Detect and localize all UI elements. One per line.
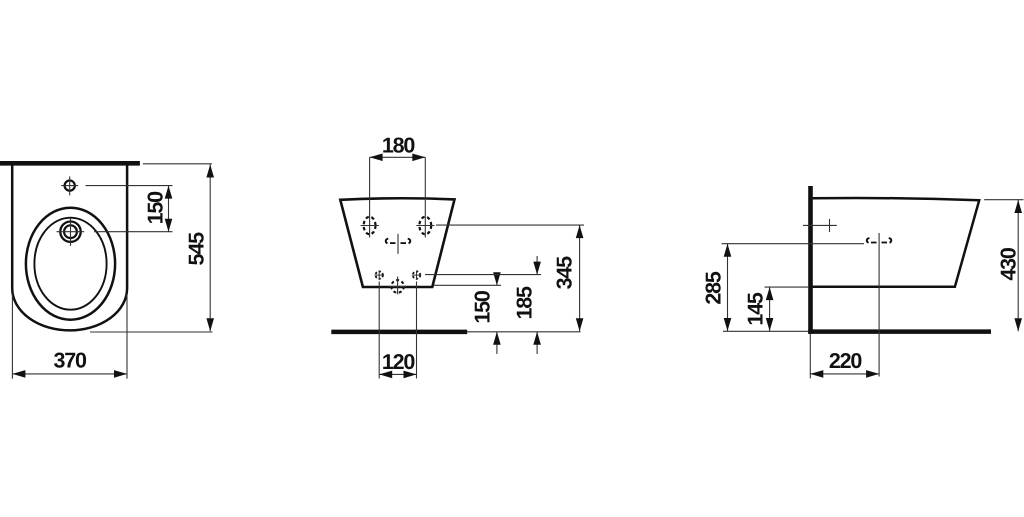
dim 145: extension line	[765, 286, 810, 288]
dim 220: label	[829, 349, 863, 373]
dim 370: dimension line with arrows	[12, 370, 127, 378]
dim 285: dimension line with arrows	[724, 244, 732, 331]
dim 185: dimension line with outside arrows	[533, 256, 541, 354]
dim 150 plan: dimension line with arrows	[165, 186, 173, 232]
dim 150 front: dimension line with outside arrows	[493, 272, 501, 354]
floor line side view	[808, 329, 991, 334]
dim 285: extension line	[722, 243, 865, 245]
svg-text:145: 145	[744, 292, 768, 326]
dim 150 front: extension line from trapezoid bottom	[434, 284, 501, 286]
svg-text:120: 120	[382, 350, 416, 374]
floor thin extension to left dims	[723, 330, 808, 332]
dim 545: top extension line	[143, 163, 212, 165]
dim 345: extension line from mounting holes	[436, 224, 584, 226]
water inlet symbol side (dashed crosshair)	[867, 238, 891, 243]
svg-text:180: 180	[382, 134, 416, 158]
dim 180: dimension line with arrows	[370, 154, 426, 162]
dim 185: extension line from bolt holes	[425, 274, 541, 276]
dim 345: label	[553, 256, 577, 290]
bolt hole left front (small dashed circle)	[375, 270, 384, 279]
faucet crosshair side	[803, 219, 837, 232]
dim 430: dimension line with arrows	[1014, 200, 1022, 331]
mounting hole right (dashed)	[416, 217, 434, 235]
dim 145: label	[744, 292, 768, 326]
svg-text:285: 285	[702, 271, 726, 305]
dim 120: extension lines	[379, 282, 416, 379]
dim 185: label	[513, 286, 537, 320]
svg-text:370: 370	[54, 348, 88, 372]
dim 220: left extension line below floor	[809, 334, 811, 378]
svg-text:545: 545	[185, 232, 209, 266]
dim 430: label	[997, 247, 1021, 281]
dim 180: label	[382, 134, 416, 158]
dim 120: dimension line with arrows	[379, 371, 416, 379]
dim 370: extension lines	[12, 294, 127, 379]
svg-text:150: 150	[471, 290, 495, 324]
svg-text:185: 185	[513, 286, 537, 320]
floor line front view	[331, 330, 467, 335]
water inlet symbol front (dashed crosshair)	[386, 234, 411, 254]
svg-text:220: 220	[829, 349, 863, 373]
dim 345: dimension line with arrows	[576, 225, 584, 331]
dim 430: extension line top right	[984, 199, 1023, 201]
bidet profile outline side	[813, 198, 980, 287]
floor thin extension to right dims	[467, 331, 580, 333]
dim 150 plan: label	[144, 191, 168, 225]
dim 145: dimension line with arrows	[766, 287, 774, 331]
dim 545: dimension line with arrows	[206, 165, 214, 332]
mounting hole left (dashed)	[361, 217, 379, 235]
dim 150 plan: extension lines	[86, 186, 173, 232]
svg-text:150: 150	[144, 191, 168, 225]
dim 545: bottom extension line	[90, 331, 213, 333]
bidet body outline plan	[12, 164, 127, 330]
wall line plan view	[0, 161, 140, 166]
dim 285: label	[702, 271, 726, 305]
bidet trapezoid outline front	[340, 198, 454, 287]
bowl inner oval	[34, 218, 106, 310]
bowl outer rim oval	[26, 208, 115, 320]
dim 120: label	[382, 350, 416, 374]
svg-text:430: 430	[997, 247, 1021, 281]
dim 370: label	[54, 348, 88, 372]
faucet hole plan	[61, 176, 78, 195]
inlet vertical extension line (220 right ext)	[878, 233, 880, 377]
drain hole plan	[57, 219, 85, 246]
drain hole front (dashed circle)	[389, 277, 406, 295]
dim 150 front: label	[471, 290, 495, 324]
dim 220: dimension line with arrows	[810, 370, 879, 378]
dim 545: label	[185, 232, 209, 266]
dim 180: extension lines through holes	[370, 157, 426, 237]
wall line side view	[808, 186, 813, 334]
svg-text:345: 345	[553, 256, 577, 290]
bolt hole right front (small dashed circle)	[412, 270, 421, 279]
